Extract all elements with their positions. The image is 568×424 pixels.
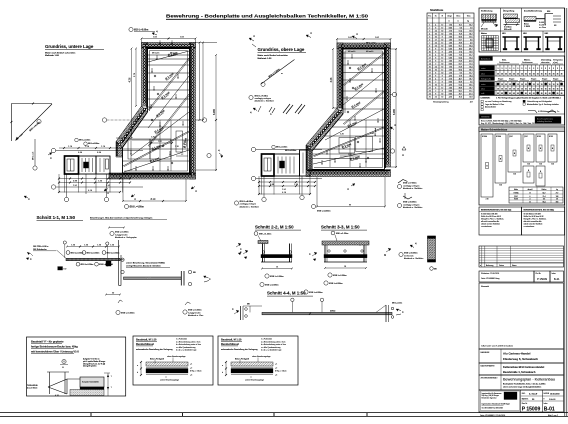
svg-text:2.26: 2.26 (449, 30, 452, 32)
svg-text:Ø8 L=1.30m: Ø8 L=1.30m (79, 140, 91, 142)
svg-text:Übergreifung: Übergreifung (503, 10, 514, 13)
svg-text:Ø8 e=15: Ø8 e=15 (481, 29, 488, 31)
svg-text:10: 10 (441, 54, 443, 56)
detail box V drawing (27, 372, 113, 397)
svg-text:12.3: 12.3 (469, 63, 472, 65)
svg-text:Ø8 e=15: Ø8 e=15 (152, 53, 159, 55)
svg-text:seitl.: seitl. (481, 92, 485, 95)
left plan inner wall lines (123, 49, 190, 174)
svg-text:Abstände n. Plan: Abstände n. Plan (188, 314, 203, 317)
svg-text:35: 35 (497, 74, 499, 76)
right plan top section marker (352, 32, 376, 45)
svg-text:26.4: 26.4 (469, 75, 472, 77)
svg-text:12: 12 (529, 192, 531, 194)
left plan small interior tick symbols (130, 55, 185, 170)
right plan left vertical dimension line (330, 48, 337, 109)
svg-text:A: A (402, 153, 404, 157)
svg-text:Pos: Pos (428, 16, 431, 18)
svg-text:15: 15 (525, 84, 527, 86)
svg-text:Abstände n. Stahlliste: Abstände n. Stahlliste (240, 205, 260, 208)
svg-text:3: 3 (561, 68, 562, 70)
svg-text:Ø10 e=15: Ø10 e=15 (504, 29, 512, 31)
svg-text:BAUVORHABEN: BAUVORHABEN (481, 365, 495, 368)
svg-text:1. Für Verlege-Gruppen gilt je: 1. Für Verlege-Gruppen gilt je Bauteil; … (496, 96, 561, 99)
svg-text:61.7: 61.7 (459, 63, 462, 65)
section 1-1 upper circled label row (66, 251, 119, 255)
svg-text:HINWEISE:: HINWEISE: (481, 117, 490, 119)
section 4-4 title (267, 291, 313, 297)
right plan right axis circles (390, 92, 396, 153)
svg-text:Änderung: Änderung (486, 264, 493, 267)
svg-text:Ø8 L=1.30m: Ø8 L=1.30m (336, 233, 348, 235)
svg-text:15: 15 (517, 89, 519, 91)
svg-text:2: 2 (435, 81, 436, 83)
right plan band rebar circle chains (307, 44, 390, 174)
svg-text:Ø Sp. ≥ 10cm: Ø Sp. ≥ 10cm (275, 370, 287, 373)
svg-text:3: 3 (498, 68, 499, 70)
svg-text:3: 3 (521, 68, 522, 70)
mat rectangle 5 (536, 134, 545, 166)
svg-text:Name: Name (512, 265, 517, 267)
section 3-3 title (321, 225, 367, 231)
svg-text:12: 12 (441, 24, 443, 26)
left plan bottom section markers (104, 186, 197, 201)
section 1-1 right end detail (181, 270, 211, 285)
svg-text:10: 10 (441, 66, 443, 68)
bauherr block (479, 349, 564, 363)
svg-text:3: 3 (537, 68, 538, 70)
svg-text:Alu Carimex-Handel: Alu Carimex-Handel (503, 352, 531, 356)
svg-text:5: 5 (429, 36, 430, 38)
right plan appendix interior marks (264, 158, 271, 171)
right plan leader label upper-left (261, 60, 295, 87)
svg-text:15: 15 (429, 66, 431, 68)
svg-text:25: 25 (529, 93, 531, 95)
svg-text:2.30: 2.30 (527, 164, 530, 166)
svg-text:11: 11 (429, 54, 431, 56)
svg-text:Stahlliste: Stahlliste (430, 8, 444, 12)
svg-text:Ø10 L=8.00m: Ø10 L=8.00m (240, 201, 254, 203)
svg-text:19: 19 (429, 78, 431, 80)
left plan top section marker 4 (152, 30, 158, 36)
svg-text:8: 8 (435, 57, 436, 59)
detail box Rundschluessel border (218, 336, 298, 385)
svg-text:Länge: Länge (447, 16, 452, 18)
svg-text:oben unten: oben unten (541, 61, 550, 64)
svg-text:8.965: 8.965 (393, 108, 396, 115)
right panel details block border (479, 8, 565, 52)
svg-text:35: 35 (509, 74, 511, 76)
svg-text:6: 6 (429, 39, 430, 41)
svg-text:24: 24 (435, 42, 437, 44)
svg-text:Ø Sp. ≥ 10cm: Ø Sp. ≥ 10cm (190, 370, 202, 373)
mat rectangle lower 1 (523, 166, 534, 183)
svg-text:3: 3 (509, 68, 510, 70)
svg-text:15: 15 (541, 89, 543, 91)
svg-text:35: 35 (541, 74, 543, 76)
svg-text:unten: unten (481, 67, 486, 70)
svg-text:Anschl Matte: Anschl Matte (27, 386, 37, 389)
left plan bottom hatched edge band (109, 173, 196, 179)
left plan callout texts above appendix (75, 138, 100, 145)
svg-text:2: 2 (435, 63, 436, 65)
right plan interior column rectangles (330, 120, 372, 167)
right plan appendix middle box (274, 154, 300, 176)
svg-text:35.4: 35.4 (469, 66, 472, 68)
concrete cover hinweise bar (479, 114, 565, 125)
svg-text:2.01: 2.01 (158, 141, 162, 143)
section 4-4 left end detail (232, 304, 262, 321)
svg-text:15: 15 (505, 89, 507, 91)
left plan right side marker cluster (207, 149, 223, 158)
svg-text:25: 25 (549, 93, 551, 95)
svg-text:4: 4 (435, 54, 436, 56)
detail box V title lines (31, 340, 79, 354)
steel list table (427, 13, 474, 99)
svg-text:im Bereich: im Bereich (404, 255, 413, 257)
svg-text:12: 12 (441, 48, 443, 50)
svg-text:Anschlußbewehrung: Anschlußbewehrung (524, 10, 542, 13)
svg-text:3: 3 (517, 68, 518, 70)
svg-text:Ø10 L=7.50m: Ø10 L=7.50m (255, 95, 269, 97)
svg-text:2.00: 2.00 (449, 87, 452, 89)
left plan interior column rectangles (128, 120, 183, 171)
right plan left small markers (306, 31, 312, 38)
svg-text:Gesamtgewicht kg: Gesamtgewicht kg (433, 100, 449, 103)
svg-text:25: 25 (561, 93, 563, 95)
section 1-1 slab band (66, 258, 124, 260)
svg-text:Rundschlüssel: Rundschlüssel (136, 343, 154, 346)
right plan appendix axis lines with circles (251, 147, 322, 180)
left plan bottom dimension line (122, 179, 187, 202)
svg-text:ZEICHNUNGSINHALT: ZEICHNUNGSINHALT (481, 377, 498, 380)
svg-text:58.6: 58.6 (459, 36, 462, 38)
svg-text:12: 12 (435, 39, 437, 41)
section 1-1 right side compass symbols (236, 243, 242, 255)
svg-text:Exp. Kl. XC2, Überdeckung lt.: Exp. Kl. XC2, Überdeckung lt. DIN 1045-1… (481, 122, 535, 125)
svg-text:35: 35 (545, 74, 547, 76)
drawing main title (166, 14, 369, 20)
svg-text:1.00: 1.00 (449, 39, 452, 41)
section 1-1 title (37, 215, 168, 221)
svg-text:38.0: 38.0 (459, 48, 462, 50)
left plan appendix interior marks (67, 159, 74, 171)
svg-text:6.6: 6.6 (470, 39, 472, 41)
svg-text:Index: Index (552, 273, 556, 275)
svg-text:15: 15 (533, 89, 535, 91)
svg-text:41.9: 41.9 (469, 60, 472, 62)
svg-text:Ø12 L=1.00m: Ø12 L=1.00m (115, 232, 129, 234)
detail box Rundschluessel slab drawing (137, 356, 202, 382)
svg-text:30.2: 30.2 (469, 33, 472, 35)
svg-text:1.0x1.0: 1.0x1.0 (549, 399, 555, 401)
svg-text:10.9: 10.9 (469, 96, 472, 98)
svg-text:Schnitt 2-2, M 1:50: Schnitt 2-2, M 1:50 (255, 225, 294, 230)
svg-text:m: m (349, 203, 351, 206)
svg-text:8: 8 (435, 75, 436, 77)
svg-text:10: 10 (441, 33, 443, 35)
section 3-3 body (322, 241, 369, 262)
svg-text:1.00: 1.00 (449, 42, 452, 44)
svg-text:Matte nach Bedarf schneiden: Matte nach Bedarf schneiden (258, 54, 289, 57)
svg-text:24: 24 (429, 93, 431, 95)
right panel details top cell 1 (481, 8, 501, 31)
svg-text:358: 358 (556, 201, 559, 203)
concrete cover grid 1 (479, 65, 565, 76)
section 1-1 right bottom circled callout (183, 302, 203, 317)
svg-text:55.1: 55.1 (459, 45, 462, 47)
svg-text:Ingenieurbüro für Bauwesen: Ingenieurbüro für Bauwesen (482, 393, 502, 395)
svg-text:2: 2 (435, 90, 436, 92)
detail box V note text block (83, 358, 105, 368)
svg-text:2.00: 2.00 (449, 36, 452, 38)
svg-text:15: 15 (553, 89, 555, 91)
svg-text:8: 8 (442, 75, 443, 77)
left plan left hatched edge band (142, 43, 148, 107)
svg-text:Baudetail, M 1:10: Baudetail, M 1:10 (221, 339, 242, 342)
right plan diagonal rebar lines with labels (313, 53, 385, 164)
left plan appendix bottom dimension rows (58, 178, 131, 194)
svg-text:15: 15 (545, 89, 547, 91)
section 1-1 bottom-left dimension (105, 292, 135, 314)
svg-text:Ø8 L=2.26m: Ø8 L=2.26m (285, 150, 297, 152)
svg-text:12: 12 (441, 84, 443, 86)
svg-text:51.7: 51.7 (469, 72, 472, 74)
concrete cover title (480, 57, 493, 61)
svg-text:8: 8 (442, 81, 443, 83)
svg-text:Ø10 L=2.00m: Ø10 L=2.00m (265, 284, 279, 286)
svg-text:9.8: 9.8 (543, 199, 545, 201)
svg-text:1: 1 (429, 24, 430, 26)
svg-text:15: 15 (513, 89, 515, 91)
svg-text:15: 15 (521, 89, 523, 91)
svg-text:10: 10 (441, 93, 443, 95)
svg-text:c = 45e Querbewehrung: c = 45e Querbewehrung (176, 347, 195, 349)
right panel details top cell 3 (524, 10, 561, 30)
svg-text:15: 15 (521, 84, 523, 86)
mat cutting sketch summary table (509, 187, 563, 203)
right plan appendix dimension rows (258, 181, 316, 195)
svg-text:8: 8 (435, 93, 436, 95)
right plan bottom dimension line (311, 177, 386, 213)
section 2-2 compass marker (240, 250, 248, 259)
svg-text:15: 15 (497, 89, 499, 91)
svg-text:untere Bewehrungslage: untere Bewehrungslage (160, 379, 179, 382)
section 1-1 right wall and lower slab (106, 240, 181, 286)
mat rectangle 1 (481, 134, 493, 201)
svg-text:Ø10 L=1.50m: Ø10 L=1.50m (121, 312, 135, 314)
svg-text:b: b (222, 372, 223, 374)
svg-text:2.30: 2.30 (499, 185, 502, 187)
right plan appendix vertical drops from box edges (259, 176, 310, 195)
svg-text:51.4: 51.4 (459, 84, 462, 86)
svg-text:Ø10 L=1.50m: Ø10 L=1.50m (87, 252, 100, 254)
svg-text:Rundschlüssel: Rundschlüssel (221, 343, 239, 346)
svg-text:Bewehrung lt. Stat 4x2 mst/m2: Bewehrung lt. Stat 4x2 mst/m2 u 3 Querbe… (90, 216, 153, 219)
svg-text:Grundriss, untere Lage: Grundriss, untere Lage (45, 44, 94, 49)
svg-text:35: 35 (529, 74, 531, 76)
mat rectangle lower 2 (536, 166, 545, 186)
svg-text:8: 8 (442, 78, 443, 80)
svg-text:7.50: 7.50 (449, 33, 452, 35)
right plan appendix thick black box (262, 154, 275, 176)
svg-text:3: 3 (505, 68, 506, 70)
svg-text:24: 24 (435, 30, 437, 32)
svg-text:Bewehrungshinweise: Bewehrungshinweise (537, 118, 553, 121)
sheet bottom border line (0, 413, 568, 417)
svg-text:15: 15 (525, 89, 527, 91)
svg-text:Baudetail, M 1:10: Baudetail, M 1:10 (136, 339, 157, 342)
svg-text:8.10: 8.10 (151, 198, 156, 201)
svg-text:2.30: 2.30 (539, 164, 542, 166)
svg-text:1 = Folientüte: 1 = Folientüte (261, 338, 272, 341)
svg-text:Ø10 L=1.00m: Ø10 L=1.00m (270, 276, 284, 278)
svg-text:OK FFB +0.00 =: OK FFB +0.00 = (33, 246, 49, 248)
svg-text:Plan Nr.: Plan Nr. (522, 403, 528, 405)
svg-text:Ø10 L=6.00m: Ø10 L=6.00m (404, 253, 418, 255)
mat rectangle 3 (508, 134, 521, 176)
svg-text:6: 6 (435, 72, 436, 74)
svg-text:Ø8 e=15: Ø8 e=15 (170, 53, 177, 55)
left plan top dimension line (141, 36, 197, 45)
svg-text:zweilagig verlegen: zweilagig verlegen (255, 98, 271, 100)
svg-text:d = 4 x, a, abstände Lage: d = 4 x, a, abstände Lage (176, 349, 196, 352)
right panel details bottom cell 4 support (545, 31, 565, 52)
svg-text:Unterstützung und Verlegeabst.: Unterstützung und Verlegeabst. (527, 100, 553, 103)
left plan top hatched edge band (142, 43, 196, 49)
svg-text:25: 25 (557, 93, 559, 95)
section 1-1 left note text (33, 246, 66, 258)
svg-text:22: 22 (529, 201, 531, 203)
svg-text:25: 25 (525, 93, 527, 95)
right plan outer hatch fringes (306, 41, 392, 178)
svg-text:Durchmesser: Durchmesser (499, 62, 510, 64)
svg-text:8: 8 (435, 27, 436, 29)
svg-text:Ges.L: Ges.L (456, 16, 461, 18)
svg-text:24: 24 (435, 96, 437, 98)
detail box V circled label (60, 359, 68, 369)
svg-text:Ø10 L=4.50m: Ø10 L=4.50m (130, 205, 144, 208)
section 2-2 bottom dimension and labels (260, 266, 293, 286)
right panel details row divider (479, 30, 565, 32)
svg-text:Vermerk: Vermerk (481, 286, 490, 288)
plot date and number row (479, 271, 564, 282)
svg-text:Betondeck.: Betondeck. (481, 58, 491, 61)
svg-text:15: 15 (553, 84, 555, 86)
svg-text:15: 15 (501, 84, 503, 86)
svg-text:B-41: B-41 (554, 277, 560, 281)
svg-text:Fläche: Fläche (542, 189, 547, 191)
svg-text:Matten-Schneideskizze: Matten-Schneideskizze (481, 129, 508, 132)
svg-text:untere Bewehrungslage: untere Bewehrungslage (245, 379, 264, 382)
svg-text:5.00: 5.00 (449, 54, 452, 56)
right plan callout texts above appendix (272, 145, 297, 152)
concrete cover grid 2 verlegemasse (479, 77, 565, 96)
svg-text:Ø10 L=2.00m: Ø10 L=2.00m (329, 283, 343, 285)
svg-text:35: 35 (501, 74, 503, 76)
left plan appendix middle box (79, 156, 97, 174)
left plan right hatched edge band (190, 43, 196, 180)
svg-text:Ø8 e=15: Ø8 e=15 (348, 51, 355, 53)
left plan appendix thick black box (65, 156, 79, 174)
mat rectangle 6 (548, 134, 557, 166)
svg-text:Baudetail 'V' - für geplante: Baudetail 'V' - für geplante (31, 340, 64, 344)
left plan horizontal axis with end circles (102, 118, 206, 122)
concrete cover block border (479, 56, 565, 125)
svg-text:3: 3 (525, 68, 526, 70)
right plan right callout group 2 (397, 193, 423, 209)
svg-text:10: 10 (441, 39, 443, 41)
svg-text:Beton C25/30, Stahl BSt 500 S(: Beton C25/30, Stahl BSt 500 S(A) u. BSt … (481, 119, 522, 122)
steel list footer (433, 100, 473, 103)
svg-text:15.2: 15.2 (459, 24, 462, 26)
svg-text:81.8: 81.8 (459, 66, 462, 68)
rebar steel note block left (479, 207, 522, 235)
svg-text:15: 15 (517, 84, 519, 86)
svg-text:B-01: B-01 (544, 406, 555, 412)
svg-text:Ø10: Ø10 (547, 11, 550, 13)
svg-text:2Ø12: 2Ø12 (146, 278, 152, 280)
svg-text:35: 35 (561, 74, 563, 76)
svg-text:Tel. 09122/000 Fax 09122/001: Tel. 09122/000 Fax 09122/001 (482, 408, 504, 410)
svg-text:BEWEHRUNGSSTAHL BSt 500 M(A): BEWEHRUNGSSTAHL BSt 500 M(A) (524, 208, 555, 211)
svg-text:e = 15cm: e = 15cm (539, 27, 547, 29)
svg-text:Ø8 L=1.0m: Ø8 L=1.0m (366, 43, 376, 45)
svg-text:Ø10 L=1.50m: Ø10 L=1.50m (81, 264, 94, 266)
svg-text:9: 9 (429, 48, 430, 50)
svg-text:Ø10 L=2.00m: Ø10 L=2.00m (309, 292, 323, 294)
svg-text:verlegt Maschen Abstand einhal: verlegt Maschen Abstand einhalten (126, 264, 162, 267)
svg-text:Ø10 L=1.50m: Ø10 L=1.50m (71, 252, 84, 254)
svg-text:15: 15 (541, 84, 543, 86)
svg-text:3: 3 (533, 68, 534, 70)
svg-text:+2: +2 (190, 368, 192, 370)
svg-text:zweilagig verlegen: zweilagig verlegen (403, 185, 419, 187)
svg-text:4: 4 (530, 199, 531, 201)
sheet right border line (565, 8, 567, 416)
svg-text:40.7: 40.7 (459, 78, 462, 80)
svg-text:24: 24 (435, 45, 437, 47)
svg-text:Q257: Q257 (524, 136, 528, 138)
svg-text:3: 3 (541, 68, 542, 70)
svg-text:15: 15 (561, 89, 563, 91)
svg-text:Ø8 e=15: Ø8 e=15 (366, 51, 373, 53)
svg-text:3: 3 (553, 68, 554, 70)
svg-text:5.00: 5.00 (449, 57, 452, 59)
right plan appendix right box (300, 150, 311, 176)
concrete cover column group headers (497, 59, 563, 65)
svg-text:35: 35 (537, 74, 539, 76)
svg-text:BAUHERR: BAUHERR (481, 351, 490, 354)
section 3-3 bottom dimension and labels (324, 266, 367, 285)
svg-text:15: 15 (557, 89, 559, 91)
svg-text:7.50: 7.50 (449, 24, 452, 26)
left plan outer hatch fringes (109, 41, 197, 181)
svg-text:Schnitt 3-3, M 1:50: Schnitt 3-3, M 1:50 (321, 225, 360, 230)
svg-text:15: 15 (501, 89, 503, 91)
svg-text:12: 12 (441, 27, 443, 29)
bauvorhaben block (479, 363, 564, 375)
section 3-3 compass marker (309, 252, 317, 261)
svg-text:Durchmesser: Durchmesser (522, 62, 533, 64)
svg-text:10: 10 (441, 96, 443, 98)
svg-text:oben: oben (481, 89, 485, 91)
svg-text:2.30: 2.30 (551, 164, 554, 166)
right plan diagonal hatched edge band (306, 108, 343, 151)
svg-text:57.1: 57.1 (469, 90, 472, 92)
svg-text:Q257: Q257 (509, 136, 513, 138)
svg-text:29.9: 29.9 (459, 42, 462, 44)
